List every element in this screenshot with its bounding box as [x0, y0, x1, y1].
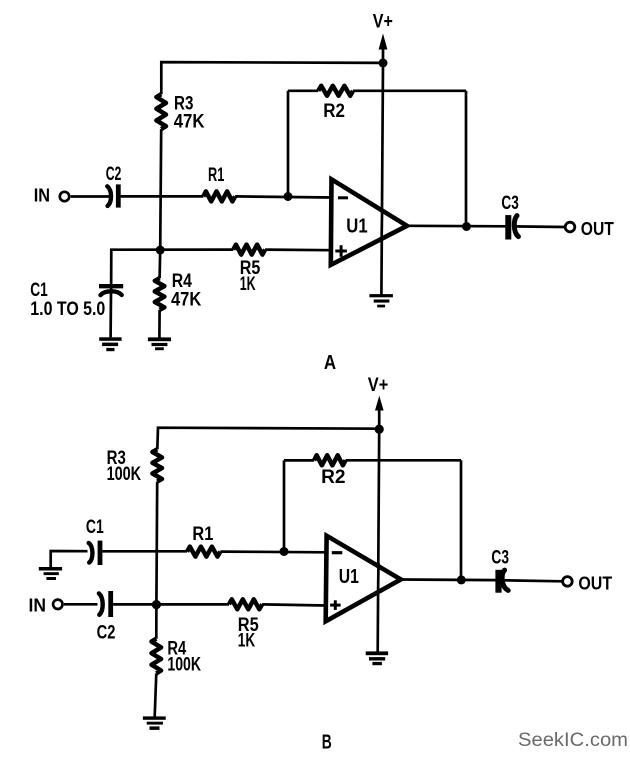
ground under R4 (A)	[148, 337, 171, 350]
V+ supply arrow (A)	[379, 34, 388, 64]
svg-text:SeekIC.com: SeekIC.com	[518, 729, 628, 751]
wire: R2 right vertical to output (A)	[465, 91, 468, 227]
wire: R1 to inverting input (B)	[220, 550, 326, 553]
wire: bias node to R4 (B)	[155, 605, 158, 639]
capacitor C3 (B)	[499, 570, 509, 593]
wire: R2 right vertical to output (B)	[460, 460, 463, 580]
wire: top rail (B) from R3 corner to V+ node	[157, 428, 379, 450]
svg-text:C2: C2	[97, 623, 116, 644]
wire: R2 top rail (B)	[284, 459, 461, 462]
node: output junction dot (A)	[462, 222, 471, 231]
wire: R3 bottom to bias node (B)	[155, 482, 159, 605]
wire: bias node to R4 (A)	[158, 250, 161, 278]
ground at C1 left (B)	[39, 567, 62, 580]
wire: IN to C2 (A)	[71, 195, 111, 198]
svg-text:100K: 100K	[107, 464, 142, 485]
wire: R2 left vertical (B)	[283, 460, 286, 551]
minus input symbol (B)	[332, 551, 343, 554]
svg-text:1K: 1K	[238, 631, 256, 652]
svg-text:U1: U1	[346, 216, 367, 238]
node: output junction dot (B)	[457, 575, 466, 584]
resistor R4 (A)	[155, 278, 165, 310]
node: bias junction dot (A)	[156, 246, 165, 255]
svg-text:C1: C1	[30, 280, 48, 301]
plus input symbol (B)	[330, 600, 341, 610]
wire: V+ vertical line through op-amp to ground (A)	[381, 63, 383, 295]
ground below op-amp (A)	[369, 294, 393, 307]
wire: C3 to OUT terminal (A)	[513, 225, 564, 228]
minus input symbol (A)	[338, 196, 348, 199]
terminal: OUT (B)	[563, 577, 573, 587]
wire: C2 through bias node to R5 (B)	[113, 603, 229, 606]
svg-text:IN: IN	[29, 595, 47, 615]
terminal: OUT (A)	[565, 222, 575, 232]
svg-text:A: A	[324, 352, 336, 374]
terminal: IN (B)	[53, 600, 62, 609]
resistor R1 (B)	[187, 547, 220, 557]
svg-text:47K: 47K	[174, 112, 205, 133]
wire: op-amp output to C3 (A)	[407, 224, 506, 227]
capacitor C3 (A)	[508, 215, 518, 239]
svg-text:R2: R2	[321, 467, 345, 488]
wire: V+ line overlay inside op-amp (B)	[377, 563, 380, 596]
svg-text:R2: R2	[323, 101, 345, 122]
svg-text:100K: 100K	[167, 655, 201, 676]
resistor R3 (A)	[156, 94, 166, 129]
wire: R4 to ground (B)	[155, 673, 157, 716]
wire: bias node rail with C1 corner to R5 (A)	[111, 250, 233, 291]
svg-text:OUT: OUT	[581, 219, 614, 239]
wire: V+ vertical line through op-amp to ground (B)	[378, 429, 380, 651]
resistor R5 (A)	[233, 245, 265, 255]
wire: IN to C2 (B)	[64, 603, 98, 606]
node: V+ junction dot (B)	[375, 425, 384, 434]
wire: C1 lower lead (A)	[109, 291, 112, 337]
wire: op-amp output to C3 (B)	[401, 578, 496, 581]
resistor R2 (B)	[314, 455, 345, 465]
node: V+ junction dot (A)	[379, 59, 388, 68]
resistor R1 (A)	[203, 191, 235, 201]
wire: top rail (A) from R3 corner to V+ node	[161, 62, 383, 94]
wire: V+ line overlay inside op-amp (A)	[380, 210, 383, 241]
ground below op-amp (B)	[366, 651, 388, 665]
svg-text:C1: C1	[86, 517, 104, 538]
wire: R2 top rail (A)	[288, 89, 466, 92]
plus input symbol (A)	[335, 245, 347, 257]
wire: R4 to ground (A)	[158, 310, 161, 338]
resistor R5 (B)	[229, 599, 262, 609]
terminal: IN (A)	[60, 192, 69, 201]
node: bias junction dot (B)	[152, 600, 161, 609]
wire: R1 to inverting input (A)	[235, 196, 331, 197]
svg-text:B: B	[322, 731, 332, 753]
ground under C1 (A)	[99, 337, 121, 351]
wire: C3 to OUT terminal (B)	[503, 580, 562, 581]
wire: C1 to R1 (B)	[102, 550, 187, 553]
svg-text:R1: R1	[192, 524, 213, 545]
capacitor C1 (B)	[89, 541, 100, 565]
resistor R3 (B)	[152, 449, 162, 481]
svg-text:R1: R1	[208, 165, 225, 186]
svg-text:IN: IN	[34, 185, 50, 205]
wire: C2 to R1 (A)	[121, 195, 204, 198]
resistor R4 (B)	[152, 639, 162, 674]
ground under R4 (B)	[143, 716, 166, 730]
svg-text:1.0 TO 5.0: 1.0 TO 5.0	[30, 299, 105, 320]
svg-text:V+: V+	[373, 11, 393, 32]
node: inverting input junction dot (B)	[280, 547, 289, 556]
V+ supply arrow (B)	[375, 396, 384, 430]
svg-text:V+: V+	[368, 375, 389, 396]
wire: R2 left vertical (A)	[287, 91, 290, 197]
svg-text:OUT: OUT	[578, 573, 612, 593]
wire: R5 to non-inverting input (A)	[265, 248, 331, 251]
svg-text:47K: 47K	[171, 290, 202, 311]
resistor R2 (A)	[318, 86, 353, 96]
op-amp U1 (B)	[326, 536, 401, 622]
svg-text:U1: U1	[339, 566, 359, 588]
node: inverting input junction dot (A)	[284, 192, 293, 201]
capacitor C2 (B)	[99, 591, 111, 617]
capacitor C2 (A)	[107, 184, 118, 207]
wire: R5 to non-inverting input (B)	[262, 604, 326, 605]
wire: ground corner to C1 (B)	[51, 551, 88, 567]
svg-text:C3: C3	[491, 548, 509, 569]
svg-text:1K: 1K	[240, 274, 256, 295]
op-amp U1 (A)	[331, 179, 407, 265]
wire: R3 bottom to bias node (A)	[160, 129, 161, 250]
svg-text:C3: C3	[501, 193, 518, 214]
svg-text:C2: C2	[106, 164, 122, 185]
capacitor C1 (A)	[99, 286, 123, 295]
